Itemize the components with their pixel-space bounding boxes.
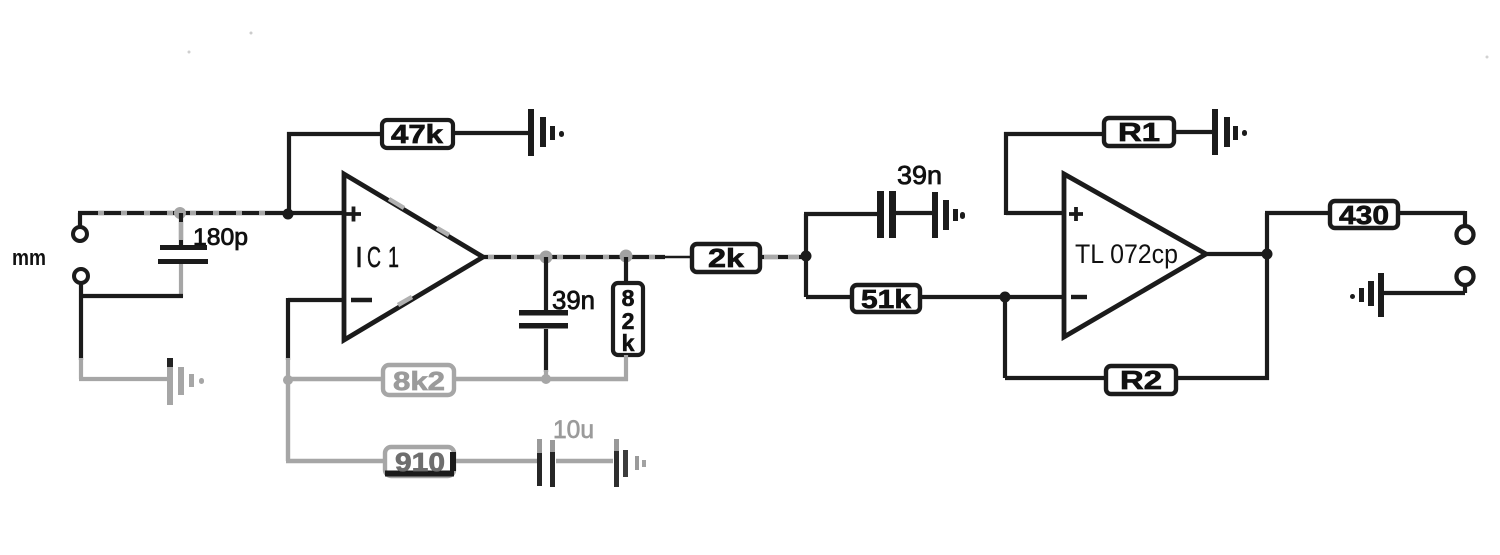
resistor 430: [1330, 200, 1398, 230]
terminal output top: [1457, 226, 1474, 243]
resistor 47k: [382, 119, 453, 149]
wire gray patches on input wire: [98, 211, 280, 215]
wire 430 to output terminal: [1398, 211, 1465, 226]
wire to 51k bottom branch: [806, 295, 852, 299]
capacitor 39n (at IC1 output): [519, 257, 595, 379]
resistor 910 (gray/black): [385, 447, 454, 477]
wire 10u to ground (gray): [556, 459, 613, 463]
terminal input bottom: [74, 269, 88, 283]
wire U2 + input from R1: [1006, 132, 1064, 215]
wire output up to 430: [1265, 213, 1330, 256]
junction gray left: [283, 375, 293, 385]
svg-text:51k: 51k: [861, 284, 912, 314]
svg-text:8k2: 8k2: [393, 366, 445, 396]
wire gray drop to ground: [79, 358, 170, 379]
resistor R1: [1104, 117, 1174, 147]
junction after 2k: [801, 251, 812, 262]
junction output / 82k: [620, 250, 633, 263]
wire R1 to ground: [1174, 130, 1213, 134]
wire IC1 output: [481, 255, 665, 259]
terminal input top: [73, 227, 87, 241]
capacitor 10u: [537, 416, 594, 487]
wire 47k to ground: [453, 131, 529, 135]
ground at 10u: [614, 439, 646, 487]
junction gray mid: [541, 374, 551, 384]
svg-text:R2: R2: [1120, 365, 1162, 395]
resistor R2: [1106, 365, 1176, 395]
svg-text:430: 430: [1339, 200, 1389, 230]
resistor 8k2 (gray): [383, 365, 454, 396]
wire gray patches on output wire: [488, 255, 656, 259]
wire to 39n top branch: [804, 212, 877, 216]
svg-text:180p: 180p: [193, 224, 248, 251]
wire IC1 - node down (black then gray): [286, 298, 290, 360]
svg-text:mm: mm: [12, 245, 46, 270]
junction - input node: [1000, 292, 1011, 303]
junction capacitor 180p node (gray): [174, 207, 186, 219]
wire 39n to ground: [896, 211, 933, 215]
ground at 47k: [528, 109, 564, 156]
wire R1 row: [1004, 132, 1104, 136]
wire U2 output: [1204, 252, 1267, 256]
wire gray vertical to 910 row: [286, 379, 290, 461]
junction input node: [283, 209, 294, 220]
terminal output bottom: [1457, 268, 1474, 285]
ground input (gray): [167, 358, 204, 405]
ground at 39n: [932, 192, 965, 238]
wire input bottom: [81, 283, 183, 360]
svg-text:2k: 2k: [708, 243, 745, 273]
wire output bottom to ground: [1384, 285, 1465, 293]
wire gray feedback row (8k2 row): [288, 377, 628, 381]
wire 51k to U2 - input: [920, 295, 1064, 299]
svg-text:R1: R1: [1118, 117, 1160, 147]
wire input node up to 47k: [287, 132, 382, 216]
svg-text:39n: 39n: [552, 285, 595, 315]
junction output / 39n: [540, 251, 553, 264]
capacitor 39n (to ground): [877, 160, 942, 238]
op-amp U2 TL072cp: [1064, 174, 1206, 337]
wire gray 910 row: [286, 459, 537, 463]
ground at output (left facing): [1350, 273, 1384, 317]
op-amp IC1: [344, 174, 483, 340]
resistor 2k: [692, 243, 760, 273]
wire gray patches after 2k: [764, 255, 799, 259]
wire junction vertical: [804, 214, 808, 297]
svg-text:TL 072cp: TL 072cp: [1075, 239, 1178, 269]
resistor 82k (vertical): [613, 257, 643, 381]
svg-text:39n: 39n: [897, 160, 942, 190]
svg-text:C: C: [367, 242, 381, 274]
capacitor C 180p: [158, 213, 248, 297]
wire R2 to output node: [1176, 254, 1269, 380]
junction output node: [1262, 249, 1273, 260]
ground at R1: [1212, 109, 1247, 155]
wire IC1 - input: [288, 298, 344, 302]
svg-text:10u: 10u: [553, 416, 594, 444]
svg-text:910: 910: [395, 447, 445, 477]
svg-text:I: I: [355, 242, 363, 274]
svg-text:47k: 47k: [391, 119, 444, 149]
svg-text:1: 1: [388, 242, 399, 274]
svg-text:k: k: [622, 330, 635, 356]
wire 2k to junction: [760, 255, 806, 259]
wire - node down to R2 row: [1005, 295, 1106, 378]
resistor 51k: [852, 284, 920, 314]
wire input top to IC1 + input: [78, 213, 344, 227]
